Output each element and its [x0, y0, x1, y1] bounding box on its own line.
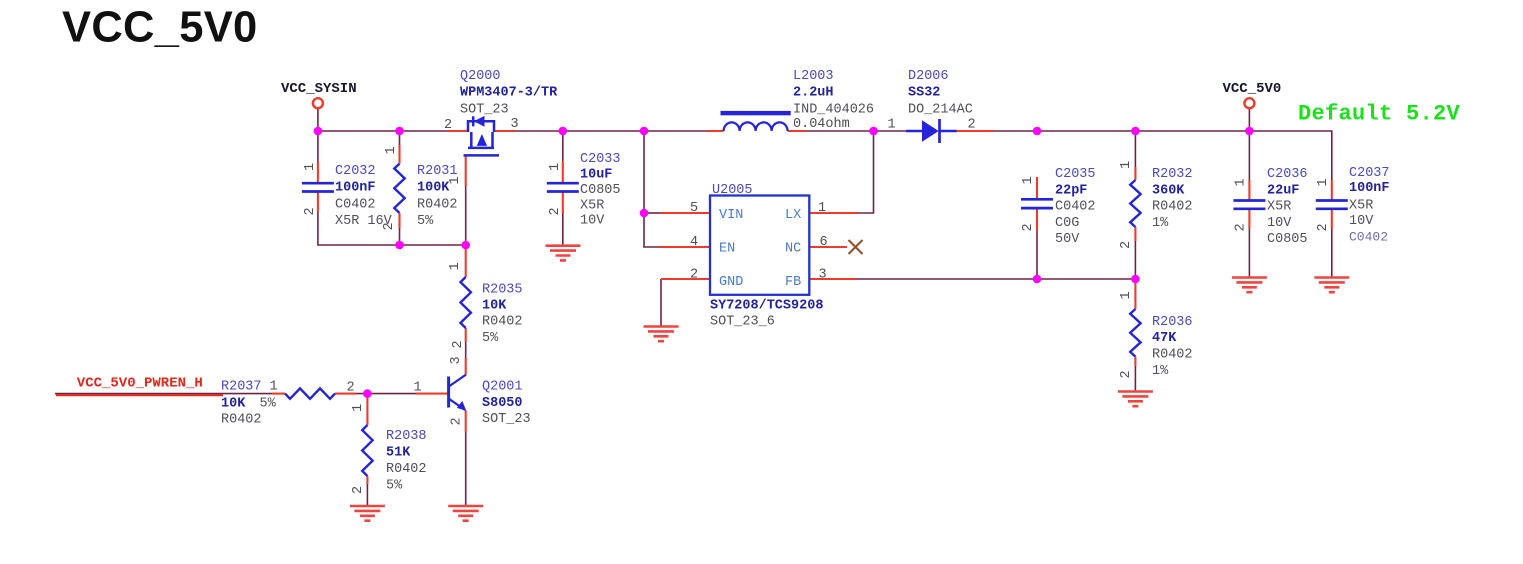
svg-text:1: 1	[303, 163, 318, 171]
svg-text:R2032: R2032	[1152, 167, 1193, 182]
svg-text:C0805: C0805	[580, 183, 621, 198]
svg-text:10K: 10K	[482, 299, 507, 314]
svg-text:100K: 100K	[417, 181, 450, 196]
svg-text:1: 1	[384, 146, 399, 154]
svg-text:IND_404026: IND_404026	[793, 103, 874, 118]
svg-text:10uF: 10uF	[580, 168, 612, 183]
svg-text:C2035: C2035	[1055, 167, 1096, 182]
svg-text:Q2000: Q2000	[460, 69, 501, 84]
svg-text:2: 2	[444, 118, 452, 133]
svg-text:VCC_5V0: VCC_5V0	[1223, 81, 1282, 97]
svg-text:2: 2	[968, 118, 976, 133]
svg-text:5: 5	[690, 201, 698, 216]
svg-text:C0402: C0402	[1055, 200, 1096, 215]
svg-text:R0402: R0402	[417, 197, 458, 212]
svg-text:100nF: 100nF	[1349, 181, 1390, 196]
svg-text:22uF: 22uF	[1267, 183, 1299, 198]
svg-text:1: 1	[351, 404, 366, 412]
svg-text:R2036: R2036	[1152, 315, 1193, 330]
svg-text:D2006: D2006	[908, 69, 949, 84]
svg-text:FB: FB	[785, 275, 801, 290]
svg-text:2: 2	[690, 268, 698, 283]
svg-text:Default 5.2V: Default 5.2V	[1298, 102, 1461, 127]
svg-text:100nF: 100nF	[335, 181, 376, 196]
svg-text:1%: 1%	[1152, 364, 1169, 379]
svg-text:WPM3407-3/TR: WPM3407-3/TR	[460, 86, 558, 101]
svg-text:L2003: L2003	[793, 69, 834, 84]
svg-text:1: 1	[448, 176, 463, 184]
svg-text:DO_214AC: DO_214AC	[908, 103, 973, 118]
svg-text:SOT_23: SOT_23	[482, 412, 531, 427]
svg-text:R0402: R0402	[1152, 200, 1193, 215]
svg-text:2: 2	[1119, 370, 1134, 378]
svg-text:R0402: R0402	[386, 462, 427, 477]
svg-text:3: 3	[449, 356, 464, 364]
svg-text:47K: 47K	[1152, 331, 1177, 346]
svg-text:10V: 10V	[1349, 214, 1374, 229]
svg-text:X5R: X5R	[580, 199, 604, 214]
svg-text:X5R: X5R	[1267, 200, 1291, 215]
svg-text:360K: 360K	[1152, 183, 1185, 198]
svg-text:2.2uH: 2.2uH	[793, 86, 834, 101]
svg-text:R2037: R2037	[221, 380, 262, 395]
svg-text:R0402: R0402	[482, 315, 523, 330]
svg-text:X5R: X5R	[1349, 199, 1373, 214]
svg-text:1: 1	[270, 380, 278, 395]
svg-text:5%: 5%	[260, 396, 277, 411]
svg-text:10K: 10K	[221, 396, 246, 411]
svg-text:R0402: R0402	[221, 413, 262, 428]
svg-text:5%: 5%	[386, 478, 403, 493]
svg-text:R2038: R2038	[386, 429, 427, 444]
svg-text:R0402: R0402	[1152, 348, 1193, 363]
svg-text:3: 3	[819, 268, 827, 283]
svg-text:SY7208/TCS9208: SY7208/TCS9208	[710, 299, 823, 314]
svg-text:R2035: R2035	[482, 283, 523, 298]
svg-text:2: 2	[1234, 223, 1249, 231]
svg-text:C0402: C0402	[335, 197, 376, 212]
svg-text:2: 2	[347, 381, 355, 396]
svg-text:6: 6	[820, 235, 828, 250]
svg-text:2: 2	[1119, 241, 1134, 249]
svg-text:GND: GND	[719, 275, 743, 290]
svg-text:2: 2	[548, 207, 563, 215]
svg-text:VCC_5V0_PWREN_H: VCC_5V0_PWREN_H	[77, 376, 203, 392]
svg-text:EN: EN	[719, 242, 735, 257]
svg-text:1: 1	[448, 262, 463, 270]
svg-text:S8050: S8050	[482, 396, 523, 411]
svg-text:1: 1	[888, 118, 896, 133]
svg-text:51K: 51K	[386, 446, 411, 461]
svg-text:SOT_23: SOT_23	[460, 102, 509, 117]
svg-text:C2036: C2036	[1267, 167, 1308, 182]
svg-text:2: 2	[303, 207, 318, 215]
svg-text:1: 1	[1119, 291, 1134, 299]
svg-text:C0402: C0402	[1349, 230, 1388, 245]
svg-text:0.04ohm: 0.04ohm	[793, 117, 850, 132]
svg-text:2: 2	[450, 417, 465, 425]
svg-text:3: 3	[511, 117, 519, 132]
svg-text:50V: 50V	[1055, 232, 1080, 247]
svg-text:5%: 5%	[417, 214, 434, 229]
svg-text:2: 2	[382, 222, 397, 230]
svg-text:10V: 10V	[580, 214, 605, 229]
svg-text:1: 1	[548, 163, 563, 171]
svg-text:C2033: C2033	[580, 152, 621, 167]
svg-text:1: 1	[1234, 178, 1249, 186]
svg-text:VIN: VIN	[719, 208, 743, 223]
svg-text:NC: NC	[785, 242, 801, 257]
svg-text:1: 1	[1316, 178, 1331, 186]
svg-text:2: 2	[351, 486, 366, 494]
svg-text:5%: 5%	[482, 331, 499, 346]
svg-text:22pF: 22pF	[1055, 183, 1087, 198]
svg-text:C2037: C2037	[1349, 166, 1390, 181]
svg-text:10V: 10V	[1267, 216, 1292, 231]
svg-text:C0805: C0805	[1267, 232, 1308, 247]
svg-text:1: 1	[414, 381, 422, 396]
svg-text:1: 1	[1021, 176, 1036, 184]
svg-text:2: 2	[1021, 223, 1036, 231]
svg-text:1: 1	[1119, 161, 1134, 169]
svg-text:1%: 1%	[1152, 216, 1169, 231]
svg-text:U2005: U2005	[712, 183, 753, 198]
svg-text:Q2001: Q2001	[482, 380, 523, 395]
svg-text:C2032: C2032	[335, 164, 376, 179]
svg-text:1: 1	[818, 201, 826, 216]
svg-text:2: 2	[1316, 223, 1331, 231]
svg-text:VCC_SYSIN: VCC_SYSIN	[281, 81, 357, 97]
svg-text:SS32: SS32	[908, 86, 940, 101]
svg-text:LX: LX	[785, 208, 801, 223]
svg-text:2: 2	[451, 340, 466, 348]
svg-text:SOT_23_6: SOT_23_6	[710, 315, 775, 330]
svg-text:VCC_5V0: VCC_5V0	[62, 4, 258, 52]
svg-text:4: 4	[690, 235, 698, 250]
svg-text:C0G: C0G	[1055, 216, 1079, 231]
